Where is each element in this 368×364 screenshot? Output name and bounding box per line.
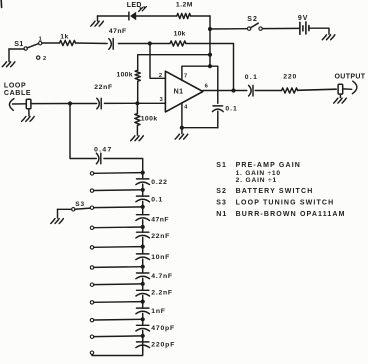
wire plug to node C [31, 103, 70, 105]
loop cable jack arc [9, 99, 13, 111]
wire tap 9 [94, 318, 143, 321]
switch S3 contact 10 [90, 335, 93, 338]
svg-text:0.1: 0.1 [245, 74, 258, 81]
wire battery to ground [309, 28, 329, 34]
node ladder junction 10 [141, 334, 145, 338]
wire tap 5 [94, 246, 143, 249]
svg-text:OUTPUT: OUTPUT [335, 73, 366, 80]
wire plug to jack arc [343, 88, 352, 90]
svg-text:LOOP TUNING SWITCH: LOOP TUNING SWITCH [236, 200, 335, 207]
resistor 100k lower [135, 114, 140, 126]
ground (loop plug) [28, 109, 30, 116]
switch S3 contact 8 [90, 301, 93, 304]
switch S3 contact 6 [90, 266, 93, 269]
svg-text:3: 3 [160, 97, 163, 103]
wire output node to C 0.1 [234, 90, 247, 92]
wire tap 4 [94, 226, 143, 229]
wire tap 2 [94, 189, 143, 192]
svg-text:1k: 1k [60, 33, 68, 40]
svg-text:22nF: 22nF [94, 84, 113, 91]
capacitor 4.7nF ladder [137, 272, 149, 274]
wire 10k to feedback corner [186, 44, 234, 91]
svg-text:BATTERY SWITCH: BATTERY SWITCH [236, 188, 314, 195]
node A junction (pin2/47nF/10k) [148, 41, 152, 45]
wire tap 10 [94, 335, 143, 338]
svg-text:100k: 100k [117, 72, 133, 79]
resistor 1.2M [177, 13, 191, 18]
switch S2 contact left [247, 27, 250, 30]
wire ground to LED [98, 15, 129, 17]
svg-text:LED: LED [127, 2, 142, 9]
capacitor 0.47 [96, 153, 99, 164]
wire 1.2M to V+ bus corner [191, 15, 210, 17]
switch S3 contact 4 [90, 226, 93, 229]
capacitor 0.1 bypass [213, 105, 223, 107]
node pin4 ground junction [180, 126, 184, 130]
wire 0.47 to ladder bus top [104, 159, 143, 173]
loop cable plug [26, 99, 31, 109]
wire node A to pin 2 [150, 44, 165, 79]
svg-text:S1: S1 [216, 162, 227, 169]
wire node C to C 22nF [70, 103, 97, 105]
capacitor 220pF ladder [137, 341, 149, 343]
svg-text:0.22: 0.22 [151, 179, 167, 186]
wire bus to S2 [210, 28, 247, 30]
capacitor 1nF ladder [137, 307, 149, 309]
svg-text:47nF: 47nF [109, 28, 127, 35]
svg-text:220: 220 [283, 73, 297, 80]
wire LED to R 1.2M [136, 15, 177, 17]
wire node B to pin 3 [137, 102, 165, 104]
svg-text:LOOP: LOOP [4, 82, 26, 89]
wire tap 8 [94, 301, 143, 304]
switch S3 contact 11 (bottom) [90, 351, 93, 354]
wire V+ bus vertical [209, 16, 211, 66]
svg-text:0.1: 0.1 [151, 196, 163, 203]
svg-text:100k: 100k [141, 116, 158, 123]
capacitor 47nF (feedback branch) [109, 39, 112, 50]
capacitor 22nF input coupling [97, 98, 100, 109]
switch S3 pivot contact [72, 208, 75, 211]
svg-text:2.2nF: 2.2nF [151, 290, 173, 297]
wire tap 1 [94, 172, 143, 175]
resistor 220 [282, 88, 298, 93]
wire pin4 node to bypass cap [182, 127, 218, 129]
switch S3 contact 5 [90, 246, 93, 249]
svg-text:47nF: 47nF [151, 217, 169, 224]
switch S1 throw contact 2 (open) [37, 56, 40, 59]
svg-text:N1: N1 [174, 89, 184, 96]
LED D1 [128, 12, 130, 21]
wire bypass cap to pin4 node [217, 111, 219, 128]
ground (bias divider) [131, 136, 144, 141]
switch S1 arm [27, 44, 38, 48]
output jack arc [352, 81, 357, 94]
svg-text:0.1: 0.1 [225, 106, 237, 113]
node V+ / S2 branch junction [208, 27, 212, 31]
wire node B to lower 100k [136, 103, 138, 113]
wire pin4 to ground node [181, 103, 183, 128]
wire upper 100k to node B [137, 81, 139, 103]
node ladder junction 6 [141, 265, 145, 269]
wire V+ to upper 100k [138, 55, 210, 71]
switch S3 contact 3 [90, 206, 93, 209]
wire tap 6 [94, 266, 143, 269]
wire jack to plug [13, 103, 27, 105]
resistor 10k [170, 41, 186, 46]
wire 22nF to node B [104, 102, 137, 104]
wire S2 to battery [262, 27, 299, 29]
svg-text:1nF: 1nF [151, 308, 165, 315]
ground (battery) [322, 35, 335, 40]
svg-text:S3: S3 [216, 200, 227, 207]
wire pin7 to V+ and bypass cap [182, 66, 218, 103]
svg-text:S2: S2 [247, 16, 258, 23]
ground (LED) [91, 21, 104, 26]
wire ladder bottom return [92, 336, 143, 356]
wire node A to R 10k [150, 43, 170, 45]
node output junction [231, 88, 235, 92]
wire lower 100k to ground [136, 125, 138, 135]
svg-text:1: 1 [39, 37, 42, 43]
wire pin6 output [203, 90, 234, 92]
switch S3 arm [75, 208, 90, 209]
output plug [338, 84, 343, 94]
switch S3 contact 1 [90, 172, 93, 175]
switch S1 throw contact 1 [39, 42, 42, 45]
svg-text:CABLE: CABLE [4, 90, 31, 97]
capacitor 47nF ladder [137, 214, 149, 216]
node ladder junction 1 [141, 171, 145, 175]
svg-text:2: 2 [43, 56, 46, 62]
wire tap 3 [94, 206, 143, 209]
node ladder junction 3 [141, 205, 145, 209]
wire node C down to 0.47 [70, 104, 96, 159]
scan edge mark top-left [0, 0, 2, 8]
node ladder junction 8 [141, 300, 145, 304]
wire tap 7 [94, 283, 143, 286]
op-amp N1 triangle [165, 71, 203, 112]
svg-text:6: 6 [205, 83, 208, 89]
node ladder junction 7 [141, 282, 145, 286]
svg-text:0.47: 0.47 [94, 147, 112, 154]
svg-text:2. GAIN ÷1: 2. GAIN ÷1 [236, 177, 277, 184]
svg-text:4: 4 [184, 105, 188, 111]
switch S2 arm [250, 23, 258, 28]
node ladder junction 4 [141, 225, 145, 229]
node V+ / bias branch junction [208, 53, 212, 57]
wire ground to S3 pivot [58, 208, 72, 210]
wire ladder bus segments [142, 173, 144, 353]
capacitor 2.2nF ladder [137, 289, 149, 291]
svg-text:1.2M: 1.2M [176, 2, 193, 9]
capacitor 0.1 output coupling [249, 85, 252, 96]
wire 47nF to node A [118, 43, 149, 45]
svg-text:9V: 9V [298, 15, 309, 22]
svg-text:470pF: 470pF [151, 325, 175, 332]
node ladder junction 2 [141, 188, 145, 192]
capacitor 0.22 ladder [137, 178, 149, 180]
svg-text:S1: S1 [14, 41, 23, 48]
node C junction (ladder branch) [68, 101, 72, 105]
svg-text:4.7nF: 4.7nF [151, 273, 173, 280]
ground (op-amp pin 4) [181, 128, 183, 134]
svg-text:S3: S3 [75, 201, 85, 208]
svg-text:S2: S2 [216, 188, 227, 195]
switch S3 contact 9 [90, 318, 93, 321]
resistor 1k [60, 40, 76, 45]
node ladder junction 5 [141, 245, 145, 249]
svg-text:22nF: 22nF [151, 233, 170, 240]
switch S3 contact 7 [90, 283, 93, 286]
switch S3 contact 2 [90, 189, 93, 192]
switch S2 contact right [259, 27, 262, 30]
capacitor 470pF ladder [137, 324, 149, 326]
svg-text:220pF: 220pF [151, 342, 175, 349]
svg-text:7: 7 [184, 73, 187, 79]
battery 9V [299, 22, 301, 34]
capacitor 0.1 ladder [137, 195, 149, 197]
wire 1k to C 47nF [76, 42, 108, 45]
svg-text:PRE-AMP GAIN: PRE-AMP GAIN [236, 162, 301, 169]
svg-text:10k: 10k [174, 31, 186, 38]
node V+ / pin7 junction [208, 64, 212, 68]
node B junction (bias/pin3) [135, 101, 139, 105]
resistor 100k upper [135, 70, 140, 81]
wire 220 to output plug [298, 89, 337, 90]
wire S1 contact1 to R 1k [42, 42, 60, 44]
switch S1 pivot contact [24, 47, 27, 50]
capacitor 22nF ladder [137, 231, 149, 233]
capacitor 10nF ladder [137, 253, 149, 255]
svg-text:BURR-BROWN OPA111AM: BURR-BROWN OPA111AM [236, 211, 346, 218]
node ladder junction 9 [141, 317, 145, 321]
ground (S3) [57, 209, 59, 218]
svg-text:N1: N1 [216, 211, 227, 218]
svg-text:1. GAIN ÷10: 1. GAIN ÷10 [236, 170, 281, 177]
wire S1 common to ground stem [9, 48, 24, 50]
ground (S1) [2, 62, 15, 67]
wire C to R 220 [255, 90, 281, 92]
ground (output plug) [339, 94, 341, 98]
svg-text:10nF: 10nF [151, 254, 170, 261]
LED light arrows [139, 7, 147, 12]
